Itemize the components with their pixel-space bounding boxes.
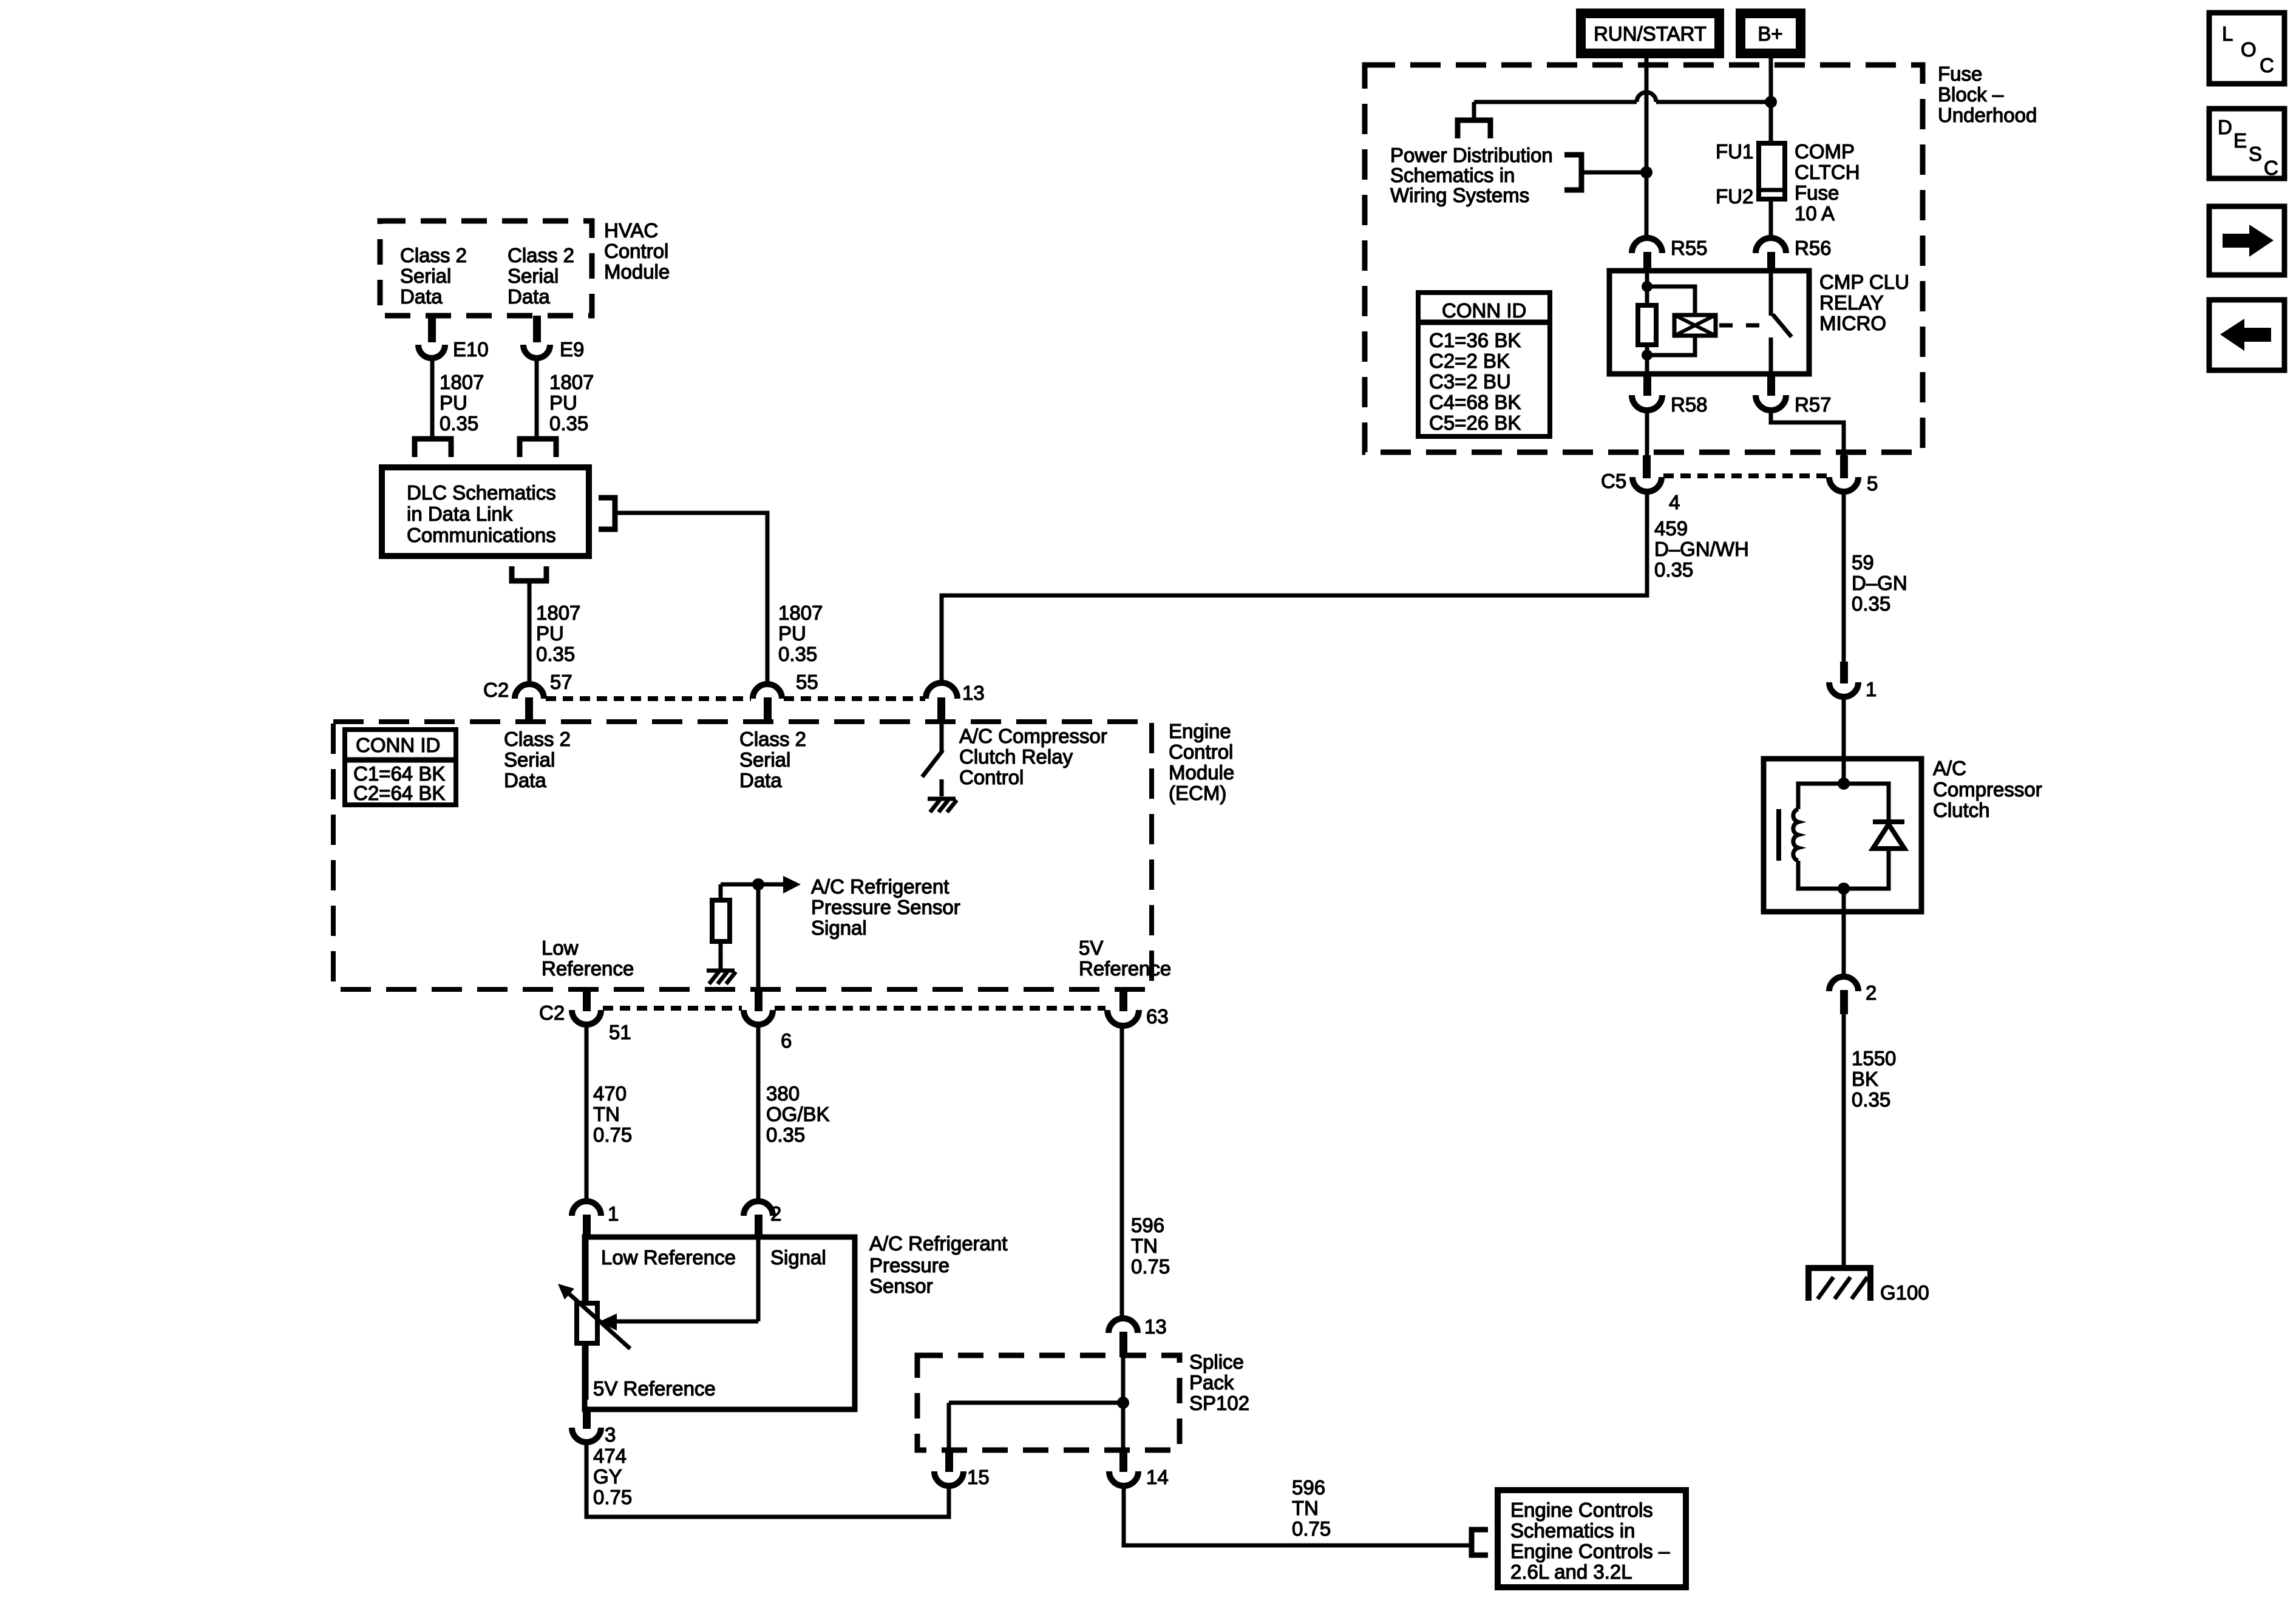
svg-text:14: 14: [1146, 1466, 1169, 1488]
svg-text:0.35: 0.35: [536, 643, 575, 665]
RUN/START power feed box: [1576, 8, 1724, 58]
wire label 470 TN 0.75: [593, 1082, 632, 1146]
connector 13 at ECM: [926, 682, 985, 719]
svg-text:Class 2: Class 2: [508, 244, 574, 266]
wire bracket to R55 wire: [1581, 171, 1646, 175]
svg-text:55: 55: [796, 671, 818, 693]
svg-text:13: 13: [1144, 1315, 1167, 1338]
label A/C Compressor Clutch Relay Control: [959, 725, 1107, 788]
A/C Compressor Clutch box: [1764, 759, 1921, 912]
svg-text:Fuse: Fuse: [1795, 181, 1839, 204]
A/C Refrigerant Pressure Sensor box: [585, 1232, 1007, 1409]
svg-text:0.75: 0.75: [593, 1486, 632, 1508]
relay solenoid X-box: [1647, 286, 1716, 355]
svg-text:2.6L and 3.2L: 2.6L and 3.2L: [1510, 1561, 1632, 1583]
connector C2 57 at ECM: [483, 671, 572, 719]
CONN ID table (ECM): [345, 730, 456, 805]
svg-text:HVAC: HVAC: [604, 219, 658, 242]
svg-text:Block –: Block –: [1938, 83, 2004, 106]
svg-text:C2: C2: [539, 1002, 565, 1024]
svg-text:Engine: Engine: [1169, 720, 1231, 742]
svg-text:in Data Link: in Data Link: [407, 503, 513, 525]
ECM dashed box: [333, 722, 1152, 989]
bracket right of Power Distribution: [1564, 155, 1581, 190]
wire clutch box to connector 2: [1842, 889, 1846, 977]
junction node on B+ wire: [1765, 96, 1777, 108]
svg-text:CONN ID: CONN ID: [356, 734, 440, 756]
wire resistor to junction: [721, 883, 758, 887]
dotted connector line 57-55: [546, 696, 751, 701]
svg-text:57: 57: [550, 671, 572, 693]
svg-text:C5=26 BK: C5=26 BK: [1429, 412, 1521, 434]
splice junction node: [1117, 1397, 1129, 1409]
svg-text:G100: G100: [1880, 1281, 1929, 1304]
svg-text:R57: R57: [1795, 393, 1832, 416]
DLC Schematics box: [382, 467, 589, 556]
connector E9: [523, 316, 584, 361]
svg-text:O: O: [2241, 38, 2257, 61]
svg-text:R55: R55: [1671, 237, 1708, 259]
wire 1 to clutch box: [1842, 697, 1846, 759]
svg-text:0.35: 0.35: [1852, 592, 1890, 615]
svg-text:459: 459: [1654, 517, 1688, 540]
svg-text:13: 13: [962, 682, 985, 704]
svg-text:5: 5: [1867, 472, 1878, 495]
svg-text:51: 51: [609, 1021, 631, 1043]
bracket below DLC box: [512, 566, 546, 581]
svg-text:4: 4: [1669, 491, 1680, 514]
wire label 596 TN 0.75: [1131, 1214, 1170, 1278]
splice connector 14: [1109, 1450, 1169, 1488]
wire RUN/START down to R55: [1645, 58, 1649, 239]
svg-text:E10: E10: [453, 338, 489, 361]
ground in ECM below switch: [928, 799, 957, 812]
connector 2 below clutch: [1829, 977, 1877, 1014]
bracket at engine controls box: [1472, 1530, 1488, 1555]
wire DLC to connector 55: [615, 513, 767, 685]
wire label 1807 PU 0.35 (55): [778, 602, 823, 665]
svg-text:Clutch: Clutch: [1933, 799, 1990, 821]
wire label 1550 BK 0.35: [1852, 1047, 1896, 1111]
svg-text:Class 2: Class 2: [739, 728, 806, 750]
svg-text:MICRO: MICRO: [1819, 312, 1886, 334]
sensor pin 1: [572, 1201, 619, 1238]
DESC icon box: [2209, 109, 2284, 179]
connector 1 at compressor clutch: [1829, 662, 1877, 700]
svg-text:Pressure Sensor: Pressure Sensor: [811, 896, 960, 918]
dotted connector line 6-63: [775, 1006, 1106, 1011]
svg-text:DLC Schematics: DLC Schematics: [407, 481, 556, 504]
relay switch: [1771, 271, 1792, 374]
svg-text:0.75: 0.75: [1131, 1255, 1170, 1278]
svg-text:C3=2 BU: C3=2 BU: [1429, 370, 1511, 393]
svg-text:Class 2: Class 2: [400, 244, 467, 266]
svg-text:CONN ID: CONN ID: [1442, 299, 1526, 322]
splice connector 13: [1109, 1315, 1167, 1357]
svg-text:Data: Data: [739, 769, 782, 792]
wire label 596 TN 0.75 (bottom): [1292, 1476, 1331, 1540]
svg-text:Low Reference: Low Reference: [601, 1246, 736, 1269]
horizontal wire B+ junction to power distribution with hop: [1474, 92, 1771, 119]
svg-text:C2=64 BK: C2=64 BK: [353, 782, 445, 804]
svg-text:SP102: SP102: [1189, 1392, 1249, 1414]
fuse COMP CLTCH: [1716, 140, 1860, 225]
svg-text:C5: C5: [1601, 470, 1626, 492]
svg-text:Splice: Splice: [1189, 1351, 1244, 1373]
rheostat (variable resistor) in sensor: [558, 1238, 630, 1400]
label Low Reference: [542, 937, 634, 980]
svg-text:FU1: FU1: [1716, 140, 1753, 163]
label Fuse Block Underhood: [1938, 63, 2037, 126]
svg-text:Pack: Pack: [1189, 1371, 1234, 1394]
label A/C Compressor Clutch: [1933, 757, 2042, 821]
svg-text:D–GN/WH: D–GN/WH: [1654, 538, 1749, 560]
svg-text:CLTCH: CLTCH: [1795, 161, 1860, 183]
svg-text:1807: 1807: [440, 371, 484, 393]
svg-text:Serial: Serial: [739, 748, 790, 771]
svg-text:Serial: Serial: [400, 265, 451, 287]
wire R57 to pin 5: [1771, 410, 1844, 455]
wire pin3 to splice 15: [586, 1442, 949, 1517]
svg-text:2: 2: [1866, 981, 1877, 1004]
svg-text:TN: TN: [593, 1103, 620, 1125]
bracket above DLC box (E10): [415, 439, 451, 457]
svg-text:Schematics in: Schematics in: [1390, 164, 1515, 186]
LOC icon box: [2209, 13, 2284, 84]
connector pin 5: [1829, 455, 1878, 495]
A/C compressor clutch relay control switch in ECM: [922, 719, 943, 796]
CMP CLU RELAY MICRO box: [1609, 271, 1809, 374]
svg-text:A/C Refrigerant: A/C Refrigerant: [869, 1232, 1007, 1255]
svg-text:Signal: Signal: [770, 1246, 826, 1269]
svg-text:(ECM): (ECM): [1169, 782, 1226, 804]
svg-text:PU: PU: [440, 392, 467, 414]
HVAC Control Module dashed box: [380, 219, 670, 316]
Splice Pack SP102 dashed box: [917, 1351, 1249, 1450]
svg-text:1: 1: [1866, 678, 1877, 700]
wire 63 to splice 13: [1120, 1026, 1124, 1318]
svg-text:FU2: FU2: [1716, 185, 1753, 208]
wire E10 to DLC: [430, 358, 435, 438]
svg-text:380: 380: [766, 1082, 800, 1105]
wire label 1807 PU 0.35 (E9): [549, 371, 594, 435]
svg-text:D–GN: D–GN: [1852, 572, 1907, 594]
svg-text:Wiring Systems: Wiring Systems: [1390, 184, 1529, 206]
svg-text:0.35: 0.35: [549, 412, 588, 435]
svg-text:C2: C2: [483, 679, 509, 701]
splice connector 15: [934, 1450, 990, 1488]
svg-text:1807: 1807: [778, 602, 823, 624]
wire R58 to C5 pin 4: [1645, 410, 1649, 455]
connector R57: [1756, 374, 1832, 416]
svg-text:C2=2 BK: C2=2 BK: [1429, 350, 1510, 372]
svg-text:Engine Controls –: Engine Controls –: [1510, 1540, 1670, 1562]
wire 6 to sensor pin 2: [756, 1025, 761, 1202]
sensor internal signal wire with arrow: [599, 1238, 758, 1331]
connector E10: [418, 316, 489, 361]
dotted connector line 55-13: [784, 696, 925, 701]
wire label 1807 PU 0.35 (E10): [440, 371, 484, 435]
svg-text:D: D: [2218, 116, 2232, 138]
svg-text:Data: Data: [508, 285, 550, 308]
svg-text:Sensor: Sensor: [869, 1275, 933, 1297]
svg-text:Data: Data: [400, 285, 443, 308]
wire 1550 to ground: [1842, 1013, 1846, 1266]
connector 55 at ECM: [753, 671, 818, 719]
B+ power feed box: [1736, 8, 1805, 58]
svg-text:RUN/START: RUN/START: [1594, 22, 1707, 45]
svg-text:TN: TN: [1292, 1497, 1319, 1519]
svg-text:PU: PU: [536, 622, 564, 645]
wire 459 from pin 4 to ECM 13: [942, 492, 1647, 685]
svg-text:A/C Refrigerent: A/C Refrigerent: [811, 875, 949, 898]
svg-text:Control: Control: [604, 240, 668, 262]
label Class 2 Serial Data (57): [504, 728, 571, 792]
wire E9 to DLC: [535, 358, 539, 438]
left arrow icon box: [2209, 300, 2284, 370]
bracket above DLC box (E9): [520, 439, 556, 457]
svg-text:470: 470: [593, 1082, 627, 1105]
svg-text:B+: B+: [1758, 22, 1782, 45]
svg-text:1: 1: [608, 1202, 619, 1225]
svg-text:Communications: Communications: [407, 524, 556, 546]
wire label 459 D-GN/WH 0.35: [1654, 517, 1749, 581]
label A/C Refrigerent Pressure Sensor Signal: [811, 875, 960, 939]
svg-text:0.75: 0.75: [1292, 1517, 1331, 1540]
svg-text:E: E: [2233, 129, 2247, 152]
svg-text:596: 596: [1131, 1214, 1164, 1236]
ECM label: [1169, 720, 1234, 804]
svg-text:Low: Low: [542, 937, 579, 959]
svg-text:C4=68 BK: C4=68 BK: [1429, 391, 1521, 413]
svg-text:COMP: COMP: [1795, 140, 1855, 163]
svg-text:Data: Data: [504, 769, 546, 792]
right arrow icon box: [2209, 206, 2284, 275]
ground G100: [1809, 1268, 1929, 1304]
sensor pin 2: [744, 1201, 781, 1238]
svg-text:TN: TN: [1131, 1235, 1158, 1257]
svg-text:Compressor: Compressor: [1933, 778, 2042, 801]
svg-text:Fuse: Fuse: [1938, 63, 1982, 85]
svg-text:0.35: 0.35: [778, 643, 817, 665]
svg-text:474: 474: [593, 1445, 627, 1467]
bracket above Power Distribution: [1458, 120, 1490, 138]
svg-text:63: 63: [1146, 1005, 1169, 1028]
clutch coil branch: [1779, 759, 1844, 889]
svg-text:E9: E9: [560, 338, 584, 361]
svg-text:PU: PU: [778, 622, 806, 645]
svg-text:Control: Control: [959, 766, 1024, 788]
wire label 59 D-GN 0.35: [1852, 551, 1907, 615]
pull-up resistor in ECM: [712, 884, 730, 970]
Engine Controls Schematics box: [1498, 1490, 1686, 1587]
label Power Distribution Schematics in Wiring Systems: [1390, 144, 1553, 206]
sensor pin 3: [572, 1407, 616, 1446]
svg-text:PU: PU: [549, 392, 577, 414]
svg-text:A/C Compressor: A/C Compressor: [959, 725, 1107, 747]
svg-text:Reference: Reference: [542, 957, 634, 980]
ground below resistor: [707, 971, 736, 984]
svg-text:Serial: Serial: [508, 265, 559, 287]
wire B+ down to fuse: [1769, 58, 1773, 143]
svg-text:596: 596: [1292, 1476, 1325, 1499]
signal arrow in ECM: [758, 876, 801, 893]
connector 6 at ECM bottom: [744, 989, 792, 1052]
svg-text:Pressure: Pressure: [869, 1254, 949, 1276]
wire label 474 GY 0.75: [593, 1445, 632, 1508]
svg-text:S: S: [2249, 143, 2262, 165]
connector 63 at ECM bottom: [1107, 989, 1169, 1028]
svg-text:10 A: 10 A: [1795, 202, 1835, 225]
svg-text:3: 3: [605, 1423, 616, 1446]
svg-text:Module: Module: [1169, 761, 1234, 784]
svg-text:C: C: [2264, 157, 2278, 179]
CONN ID table (fuse block): [1418, 293, 1550, 436]
svg-text:Engine Controls: Engine Controls: [1510, 1499, 1653, 1521]
svg-text:Clutch Relay: Clutch Relay: [959, 745, 1073, 768]
svg-text:L: L: [2222, 22, 2233, 45]
svg-text:0.35: 0.35: [1852, 1088, 1890, 1111]
label Class 2 Serial Data (55): [739, 728, 806, 792]
wire DLC to connector 57: [528, 581, 532, 685]
svg-text:5V: 5V: [1079, 937, 1103, 959]
wire fuse to R56: [1769, 199, 1773, 239]
wire 59 from pin 5 down: [1842, 492, 1846, 662]
svg-text:15: 15: [967, 1466, 990, 1488]
svg-text:Underhood: Underhood: [1938, 104, 2037, 126]
label 5V Reference: [1079, 937, 1171, 980]
connector R56: [1756, 237, 1832, 271]
wire junction down to connector 6: [756, 884, 761, 992]
svg-text:R56: R56: [1795, 237, 1832, 259]
relay junction nodes: [1642, 281, 1652, 292]
bracket right of DLC box: [599, 498, 615, 529]
clutch diode branch: [1844, 784, 1904, 889]
connector R58: [1632, 374, 1708, 416]
svg-text:C1=36 BK: C1=36 BK: [1429, 329, 1521, 351]
svg-text:Module: Module: [604, 260, 670, 283]
svg-text:5V Reference: 5V Reference: [593, 1377, 716, 1400]
svg-text:2: 2: [770, 1202, 781, 1225]
dotted connector line 4-5: [1663, 473, 1827, 478]
svg-text:RELAY: RELAY: [1819, 291, 1884, 314]
svg-text:Signal: Signal: [811, 917, 867, 939]
svg-text:OG/BK: OG/BK: [766, 1103, 830, 1125]
svg-text:1550: 1550: [1852, 1047, 1896, 1070]
connector C2 51 at ECM bottom: [539, 989, 631, 1043]
svg-text:1807: 1807: [536, 602, 580, 624]
svg-text:59: 59: [1852, 551, 1874, 574]
svg-text:CMP CLU: CMP CLU: [1819, 271, 1909, 293]
dotted connector line 51-6: [603, 1006, 742, 1011]
svg-text:0.35: 0.35: [1654, 558, 1693, 581]
svg-text:Reference: Reference: [1079, 957, 1171, 980]
svg-text:Class 2: Class 2: [504, 728, 571, 750]
connector R55: [1632, 237, 1708, 271]
relay coil resistor: [1638, 271, 1656, 374]
svg-text:R58: R58: [1671, 393, 1708, 416]
svg-text:C: C: [2260, 54, 2274, 76]
svg-text:0.75: 0.75: [593, 1124, 632, 1146]
svg-text:6: 6: [781, 1029, 792, 1052]
relay dashed actuation link: [1719, 324, 1764, 328]
clutch junction nodes: [1838, 778, 1850, 790]
label CMP CLU RELAY MICRO: [1819, 271, 1909, 334]
svg-text:GY: GY: [593, 1465, 622, 1488]
junction node: [752, 878, 764, 890]
connector C5 pin 4: [1601, 455, 1680, 514]
wire 14 to engine controls: [1124, 1486, 1471, 1545]
wire 51 to sensor pin 1: [585, 1025, 589, 1202]
svg-text:Control: Control: [1169, 741, 1233, 763]
svg-text:Power Distribution: Power Distribution: [1390, 144, 1553, 166]
splice internal wires: [949, 1357, 1123, 1450]
Fuse Block Underhood dashed box: [1365, 65, 1923, 452]
svg-text:0.35: 0.35: [766, 1124, 805, 1146]
wire label 380 OG/BK 0.35: [766, 1082, 830, 1146]
svg-text:1807: 1807: [549, 371, 594, 393]
svg-text:Schematics in: Schematics in: [1510, 1519, 1635, 1542]
svg-text:Serial: Serial: [504, 748, 555, 771]
wire label 1807 PU 0.35 (57): [536, 602, 580, 665]
svg-text:0.35: 0.35: [440, 412, 478, 435]
svg-text:BK: BK: [1852, 1068, 1878, 1090]
junction node on R55 wire: [1640, 166, 1652, 178]
svg-text:A/C: A/C: [1933, 757, 1966, 779]
